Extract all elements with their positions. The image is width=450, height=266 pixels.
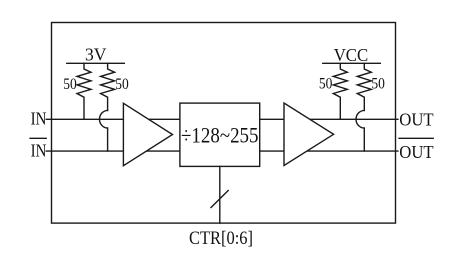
wire /OUT (bottom signal, right segment) bbox=[260, 150, 398, 152]
resistor R1 bbox=[77, 63, 91, 119]
overline of /IN label bbox=[30, 137, 46, 139]
resistor R2 bbox=[101, 63, 115, 110]
wire OUT (top signal, divider to right border) bbox=[260, 118, 398, 120]
svg-text:VCC: VCC bbox=[334, 45, 369, 65]
svg-text:50: 50 bbox=[63, 74, 77, 93]
svg-text:50: 50 bbox=[115, 74, 129, 93]
resistor R4 bbox=[357, 63, 371, 110]
svg-text:IN: IN bbox=[31, 109, 47, 129]
wire IN (top signal, left segment border to divider) bbox=[46, 118, 180, 120]
svg-text:IN: IN bbox=[31, 141, 47, 161]
bus width slash bbox=[211, 191, 228, 208]
buffer U1 bbox=[123, 103, 172, 165]
wire hop R4 over OUT bbox=[356, 110, 364, 151]
wire CTR bus bbox=[219, 166, 221, 223]
resistor R3 bbox=[333, 63, 347, 119]
wire /IN (bottom signal, left segment) bbox=[46, 150, 180, 152]
svg-text:CTR[0:6]: CTR[0:6] bbox=[189, 228, 253, 249]
overline of /OUT label bbox=[399, 137, 433, 139]
svg-text:OUT: OUT bbox=[399, 110, 433, 130]
3V rail bbox=[67, 62, 125, 64]
svg-text:÷128~255: ÷128~255 bbox=[181, 123, 259, 148]
VCC rail bbox=[323, 62, 381, 64]
svg-text:3V: 3V bbox=[85, 44, 107, 64]
svg-text:OUT: OUT bbox=[399, 142, 433, 162]
block border bbox=[52, 23, 396, 224]
wire hop R2 over IN bbox=[100, 110, 108, 151]
svg-text:50: 50 bbox=[371, 74, 385, 93]
buffer U2 bbox=[284, 103, 334, 166]
svg-text:50: 50 bbox=[319, 74, 333, 93]
divider U3 bbox=[180, 103, 260, 166]
